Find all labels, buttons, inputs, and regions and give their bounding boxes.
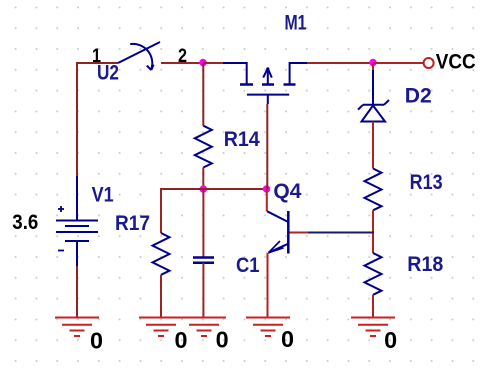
wire: switch to node 2 — [161, 62, 203, 64]
svg-text:R13: R13 — [410, 171, 443, 194]
wire: R18 to ground — [372, 295, 374, 318]
svg-text:0: 0 — [175, 327, 188, 353]
resistor R18 — [365, 253, 382, 295]
svg-text:VCC: VCC — [436, 51, 476, 74]
resistor R13 — [365, 169, 382, 211]
svg-text:D2: D2 — [405, 85, 432, 108]
svg-text:C1: C1 — [236, 254, 260, 277]
switch U2 blade — [118, 42, 160, 70]
svg-text:V1: V1 — [92, 183, 114, 206]
wire: R17 branch down — [160, 188, 162, 233]
wire: Q4 base red stub — [290, 232, 309, 234]
wire: M1 source to VCC node — [307, 62, 373, 64]
node B junction dot — [263, 185, 271, 193]
svg-text:0: 0 — [384, 327, 397, 353]
wire: left vertical from switch to battery — [76, 62, 78, 176]
wire: horizontal node line y189 — [161, 188, 267, 190]
ground under C1 — [182, 318, 226, 337]
wire: capacitor branch down — [202, 189, 204, 257]
wire: D2 to R13 — [372, 122, 374, 169]
wire: battery to ground — [76, 266, 78, 318]
ground under R18 — [351, 318, 395, 337]
svg-text:3.6: 3.6 — [12, 211, 38, 234]
resistor R17 — [153, 233, 170, 275]
svg-text:0: 0 — [281, 326, 294, 352]
svg-text:U2: U2 — [97, 62, 119, 85]
wire: M1 gate down to node B — [266, 104, 268, 189]
svg-text:R18: R18 — [407, 253, 443, 276]
wire: node 2 down to R14 — [202, 63, 204, 126]
svg-text:Q4: Q4 — [273, 180, 301, 203]
svg-text:M1: M1 — [285, 12, 307, 35]
ground under V1 — [55, 318, 99, 337]
ground under R17 — [139, 318, 183, 337]
node A junction dot — [200, 185, 208, 193]
wire: R14 to node A — [202, 168, 204, 190]
battery V1 — [56, 176, 98, 266]
mosfet M1 — [223, 62, 307, 104]
capacitor C1 — [193, 258, 214, 263]
zener diode D2 — [358, 70, 389, 122]
svg-text:0: 0 — [90, 327, 103, 353]
wire: capacitor to ground — [202, 263, 204, 318]
wire: node B down to Q4 collector — [266, 189, 268, 212]
wire: R17 to ground — [160, 275, 162, 318]
svg-text:0: 0 — [216, 327, 229, 353]
transistor Q4 — [267, 211, 288, 254]
wire: base horizontal navy segment — [307, 232, 374, 234]
wire: VCC node down stub — [372, 63, 374, 70]
wire: Q4 emitter to ground — [267, 253, 269, 318]
VCC node junction dot — [369, 59, 377, 67]
svg-text:R14: R14 — [224, 128, 260, 151]
VCC port circle — [424, 58, 434, 68]
wire: node to VCC port — [373, 62, 424, 64]
svg-text:R17: R17 — [115, 212, 150, 235]
wire: node 2 to M1 drain — [203, 62, 223, 64]
resistor R14 — [195, 126, 212, 168]
wire: switch left horizontal — [77, 62, 118, 64]
ground under Q4 — [246, 318, 290, 337]
wire: R13 to R18 vertical — [372, 210, 374, 253]
node 2 junction dot — [199, 59, 207, 67]
